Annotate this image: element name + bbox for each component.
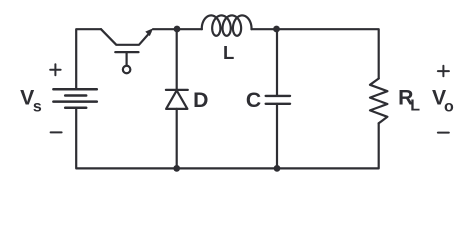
wire top rail middle segment (153, 28, 202, 30)
wire top rail right segment (252, 29, 379, 78)
wire top rail left segment (76, 29, 101, 89)
svg-text:C: C (246, 89, 261, 112)
wire bottom rail (76, 108, 379, 169)
diode D (166, 29, 188, 168)
svg-text:L: L (410, 97, 420, 114)
minus sign of Vs (51, 131, 62, 133)
inductor L (202, 15, 252, 35)
svg-text:D: D (193, 89, 208, 112)
svg-text:o: o (444, 98, 454, 115)
svg-text:s: s (33, 98, 42, 115)
node B junction dot (273, 26, 280, 33)
resistor RL (370, 79, 387, 124)
capacitor C1 (266, 29, 290, 168)
node A junction dot (174, 26, 181, 33)
plus sign of Vs (50, 64, 60, 75)
node D junction dot (274, 165, 281, 172)
svg-text:L: L (223, 42, 234, 63)
transistor Q1 (101, 28, 153, 73)
minus sign of Vo (438, 132, 449, 134)
node C junction dot (173, 165, 180, 172)
battery Vs (53, 89, 96, 108)
plus sign of Vo (438, 66, 449, 77)
